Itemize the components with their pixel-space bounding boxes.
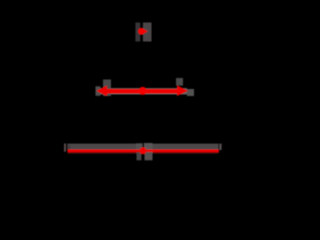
artifact block below-right of slider dot [145, 152, 153, 160]
red dot at arrow center [139, 87, 147, 95]
artifact block below-right of right arrow tip [187, 89, 194, 96]
slider track bright patch right of dot [144, 143, 153, 150]
artifact outline of arrow shaft [97, 88, 187, 94]
red slider dot [140, 147, 147, 154]
artifact block at left arrow tip [96, 86, 101, 96]
right end tick [219, 144, 221, 150]
top red marker (right-pointing handle) [138, 28, 148, 35]
dark red fade under slider line [68, 152, 219, 154]
left end tick [64, 144, 66, 152]
slider red line [68, 150, 219, 153]
darker start of track [67, 145, 70, 150]
slider track [67, 144, 218, 150]
artifact block right of top marker [143, 23, 152, 42]
black notch above slider dot [142, 143, 144, 148]
double-headed red arrow [96, 86, 188, 97]
artifact block above-left of right arrow tip [176, 78, 183, 86]
artifact block below-left of slider dot [137, 152, 142, 160]
artifact block above-right of left arrow tip [103, 80, 111, 97]
artifact block left of top marker [135, 23, 140, 42]
slider track bright patch near dot [136, 143, 142, 149]
